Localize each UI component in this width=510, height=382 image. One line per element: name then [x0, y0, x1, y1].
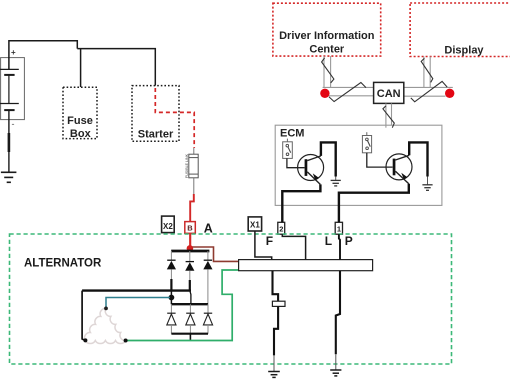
node stator left vertex: [83, 338, 87, 342]
wire column 1: [170, 291, 172, 305]
ground battery: [1, 172, 17, 182]
wire Q1 collector to ground: [321, 142, 336, 176]
diode D5 (lower): [186, 304, 195, 334]
twisted pair CAN to ECM: [383, 103, 394, 127]
terminal 2: [278, 222, 285, 234]
node bus terminator left: [320, 89, 329, 98]
stator winding (delta): [85, 308, 126, 343]
svg-text:L: L: [325, 234, 332, 248]
wire terminal 1 through regulator: [339, 234, 340, 259]
diode D3 (top): [203, 251, 212, 304]
CAN bus right segment: [404, 81, 453, 101]
starter: [132, 86, 179, 142]
teal wire stator to phase junction: [106, 298, 170, 309]
wire battery negative: [8, 110, 10, 172]
ECM box: [275, 125, 442, 205]
terminal 1: [335, 222, 342, 234]
node phase junction dot: [169, 295, 175, 301]
wire column 2 jog: [190, 291, 191, 305]
driver switch S1: [283, 139, 293, 159]
diode D6 (lower): [203, 304, 212, 334]
fuse box: [63, 87, 97, 140]
transistor Q1: [298, 155, 324, 185]
diode D2 (top): [185, 251, 194, 291]
svg-text:+: +: [11, 48, 16, 57]
CAN bus left segment: [323, 83, 374, 102]
wire phase bar lower: [171, 303, 208, 305]
wire below fusible link: [193, 178, 195, 194]
display box: [410, 3, 510, 57]
black stator wire: [82, 291, 85, 341]
wire S1 to Q1 base: [287, 158, 305, 167]
capacitor/suppressor box: [272, 301, 285, 306]
svg-text:ALTERNATOR: ALTERNATOR: [24, 258, 102, 270]
diode D4 (lower): [167, 304, 176, 334]
wire X1 to regulator F: [255, 231, 272, 260]
wire Q2 emitter to terminal 1: [339, 184, 409, 223]
svg-text:FUSIBLE LINK: FUSIBLE LINK: [185, 153, 189, 178]
svg-text:Center: Center: [309, 44, 345, 56]
svg-text:2: 2: [279, 224, 283, 233]
svg-text:X1: X1: [250, 221, 260, 230]
svg-text:Driver Information: Driver Information: [279, 30, 375, 42]
rectifier top bus: [171, 250, 209, 253]
terminal B: [185, 222, 196, 234]
svg-text:B: B: [187, 224, 193, 233]
wire S2 to Q2 base: [367, 153, 393, 167]
svg-text:F: F: [266, 234, 273, 248]
svg-text:Fuse: Fuse: [67, 115, 93, 127]
red wire B terminal to rectifier: [189, 233, 191, 248]
connector X2: [162, 216, 175, 233]
svg-text:X2: X2: [163, 222, 173, 231]
node stator right vertex: [124, 339, 128, 343]
alternator enclosure (green dashed): [10, 234, 452, 364]
battery BT1: [0, 48, 24, 129]
wire bottom bus drop: [189, 334, 191, 341]
red wire fusible link to B terminal: [190, 194, 194, 249]
svg-text:Display: Display: [444, 44, 484, 56]
diode D1 (top): [167, 251, 176, 291]
ground regulator left: [268, 372, 280, 378]
transistor Q2: [386, 154, 412, 184]
svg-text:Box: Box: [70, 128, 92, 140]
wire phase bar upper: [82, 289, 191, 291]
voltage regulator: [239, 260, 373, 271]
twisted pair DIC drop: [322, 56, 334, 88]
wire starter to fusible link (red dashed): [155, 88, 194, 148]
svg-text:Starter: Starter: [138, 129, 174, 141]
wire Q2 collector to ground: [409, 142, 427, 176]
wire Q1 emitter to terminal 2: [282, 184, 320, 222]
wire regulator F to ground: [273, 271, 279, 302]
wire battery positive to junction: [9, 41, 77, 70]
connector X1: [248, 217, 261, 231]
wire junction to starter: [77, 49, 155, 88]
CAN module: [374, 82, 404, 103]
wire junction to fuse box: [80, 49, 82, 88]
rectifier bottom bus: [171, 333, 208, 335]
fusible link F1: [185, 153, 198, 178]
svg-text:P: P: [345, 234, 353, 248]
driver information center box: [273, 3, 381, 56]
svg-text:-: -: [12, 119, 15, 129]
driver switch S2: [362, 132, 371, 153]
node junction red dot: [187, 245, 194, 252]
dark red wire to regulator: [193, 247, 239, 261]
wire terminal 2 to regulator: [282, 234, 305, 259]
green wire stator to regulator: [126, 270, 239, 341]
node bus terminator right: [445, 89, 454, 98]
node stator top vertex: [104, 307, 108, 311]
wire into fusible link: [193, 148, 195, 154]
ground Q2: [422, 185, 432, 191]
wire regulator P to ground: [336, 271, 340, 355]
ground regulator right: [330, 370, 341, 376]
svg-text:CAN: CAN: [377, 88, 401, 100]
ground Q1: [331, 180, 341, 186]
svg-text:ECM: ECM: [280, 128, 304, 140]
svg-text:1: 1: [337, 224, 341, 233]
twisted pair display drop: [421, 57, 433, 89]
